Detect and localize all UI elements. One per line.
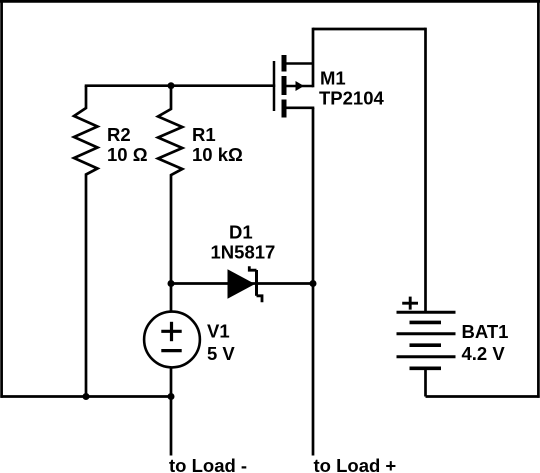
node: diode cathode junction	[310, 280, 317, 287]
node: V1 negative / load - junction	[168, 393, 175, 400]
svg-text:5 V: 5 V	[207, 343, 235, 364]
label BAT1	[462, 321, 509, 342]
svg-text:to Load +: to Load +	[314, 455, 397, 473]
wire: negative rail right edge	[537, 0, 540, 398]
svg-text:BAT1: BAT1	[462, 321, 509, 342]
svg-text:10 Ω: 10 Ω	[107, 144, 148, 165]
label D1 part number	[211, 241, 276, 262]
label V1	[207, 321, 230, 342]
wire: gate / divider top wire	[85, 84, 276, 87]
wire: to Load + lead	[312, 284, 315, 456]
wire: negative rail top edge	[0, 0, 540, 3]
transistor M1	[274, 55, 314, 118]
svg-text:M1: M1	[320, 67, 346, 88]
node: gate divider junction	[168, 82, 175, 89]
label to Load +	[314, 455, 397, 473]
label R1 value	[192, 144, 243, 165]
label V1 value	[207, 343, 235, 364]
label M1	[320, 67, 346, 88]
label BAT1 value	[462, 343, 506, 364]
svg-text:D1: D1	[229, 221, 253, 242]
svg-text:10 kΩ: 10 kΩ	[192, 144, 243, 165]
node: diode anode junction	[168, 280, 175, 287]
wire: to Load - lead	[170, 397, 173, 456]
battery BAT1	[397, 28, 456, 397]
node: R2 bottom junction	[83, 393, 90, 400]
svg-text:V1: V1	[207, 321, 230, 342]
label M1 part number	[319, 88, 385, 109]
diode D1	[228, 266, 263, 302]
wire: V1 top lead	[170, 284, 173, 313]
label to Load -	[169, 455, 247, 473]
battery plus sign	[402, 297, 418, 310]
wire: MOSFET source down	[312, 108, 315, 284]
voltage source V1	[144, 312, 200, 368]
wire: drain to top rail	[312, 28, 315, 88]
label R2 value	[107, 144, 148, 165]
svg-text:R2: R2	[107, 124, 131, 145]
wire: negative rail left edge	[0, 0, 3, 398]
resistor R2	[74, 86, 98, 397]
svg-text:TP2104: TP2104	[319, 88, 385, 109]
wire: V1 bottom lead	[170, 368, 173, 397]
svg-text:R1: R1	[192, 124, 216, 145]
wire: top rail (drain to battery positive)	[313, 28, 426, 31]
svg-text:1N5817: 1N5817	[211, 241, 276, 262]
label D1	[229, 221, 253, 242]
wire: bottom negative rail left	[0, 395, 171, 398]
label R1	[192, 124, 216, 145]
wire: bottom negative rail right (battery negative)	[426, 395, 540, 398]
svg-text:4.2 V: 4.2 V	[462, 343, 506, 364]
label R2	[107, 124, 131, 145]
wire: diode net (anode-cathode run)	[171, 282, 313, 285]
resistor R1	[158, 86, 182, 284]
svg-text:to Load -: to Load -	[169, 455, 247, 473]
